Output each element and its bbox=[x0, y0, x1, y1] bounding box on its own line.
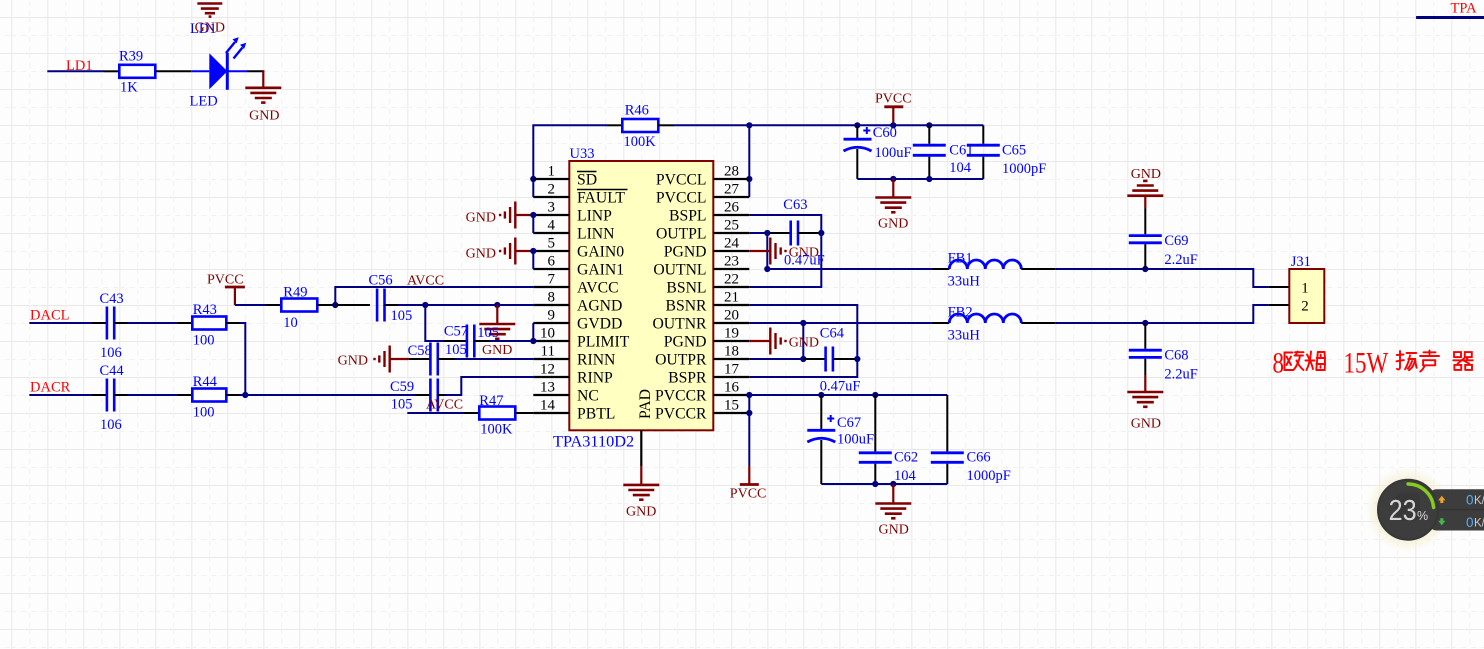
svg-text:8: 8 bbox=[548, 290, 556, 306]
pin 27 PVCCL (stub) bbox=[713, 196, 749, 198]
pin 4 LINN (stub) bbox=[533, 232, 569, 234]
ground (top, above LED) bbox=[197, 4, 222, 17]
pin name PVCCL bbox=[656, 172, 707, 189]
pin 21 BSNR (stub) bbox=[713, 304, 749, 306]
svg-text:PGND: PGND bbox=[664, 334, 707, 351]
title fragment TPA (top right) bbox=[1416, 1, 1484, 18]
svg-text:K/s: K/s bbox=[1474, 495, 1484, 507]
svg-text:100uF: 100uF bbox=[875, 145, 912, 161]
wire BSPL loop pin26 to pin22 bbox=[749, 215, 821, 287]
svg-text:RINN: RINN bbox=[577, 352, 615, 369]
wire R43 to sum node bbox=[226, 323, 245, 395]
pin 15 PVCCR (stub) bbox=[713, 412, 749, 414]
connector J31 bbox=[1289, 254, 1324, 323]
node pin1 junction bbox=[530, 176, 536, 182]
power port PVCC (left) bbox=[207, 273, 245, 306]
pin name OUTPR bbox=[655, 352, 707, 369]
wire C58 to pin11 RINN bbox=[455, 358, 533, 360]
svg-text:106: 106 bbox=[100, 417, 122, 433]
svg-text:0: 0 bbox=[1466, 515, 1474, 530]
pin 12 RINP (stub) bbox=[533, 376, 569, 378]
wire bottom cap rail bbox=[821, 483, 947, 485]
svg-text:GND: GND bbox=[1131, 417, 1161, 432]
svg-text:8: 8 bbox=[1273, 346, 1284, 379]
pin number 13 bbox=[540, 380, 555, 396]
node GND branch junction bbox=[494, 302, 500, 308]
svg-text:105: 105 bbox=[391, 308, 413, 324]
wire pin18 OUTPR to C64 bbox=[749, 358, 825, 360]
power port PVCC (top) bbox=[875, 92, 912, 126]
wire cap bottom rail bbox=[857, 178, 983, 180]
svg-text:GND: GND bbox=[1131, 167, 1161, 182]
svg-text:9: 9 bbox=[548, 308, 556, 324]
pin 10 PLIMIT (stub) bbox=[533, 340, 569, 342]
pin 18 OUTPR (stub) bbox=[713, 358, 749, 360]
node C61 top junction bbox=[926, 122, 932, 128]
svg-text:BSPL: BSPL bbox=[669, 208, 707, 225]
pin name GAIN1 bbox=[577, 262, 624, 279]
svg-text:1K: 1K bbox=[120, 80, 138, 96]
LED LD1 bbox=[190, 37, 247, 109]
svg-text:OUTPR: OUTPR bbox=[655, 352, 707, 369]
svg-text:C44: C44 bbox=[100, 363, 125, 379]
ground (bar style, pin24 PGND) bbox=[749, 238, 819, 265]
wire AVCC node to pin7 bbox=[335, 287, 533, 305]
node pin5 junction bbox=[530, 248, 536, 254]
svg-text:BSPR: BSPR bbox=[668, 370, 707, 387]
wire FB2 to J31 pin2 bbox=[1021, 305, 1289, 323]
net label AVCC (top) bbox=[407, 274, 444, 289]
wire GND rail to C57 bbox=[425, 305, 467, 341]
svg-text:GND: GND bbox=[789, 336, 819, 351]
node rail/pin28 riser junction bbox=[746, 122, 752, 128]
ground (bar style, pins 3-4) bbox=[466, 202, 534, 229]
wire C44 to R44 bbox=[114, 394, 192, 396]
capacitor C58 105 bbox=[408, 342, 467, 376]
svg-text:FB1: FB1 bbox=[948, 251, 973, 267]
ground (right of LED) bbox=[245, 88, 281, 124]
pin 26 BSPL (stub) bbox=[713, 214, 749, 216]
pin number 25 bbox=[724, 218, 739, 234]
node pin20 junction bbox=[800, 320, 806, 326]
pin number 16 bbox=[724, 380, 740, 396]
wire BSNR loop pin21 to pin17 bbox=[749, 305, 857, 377]
pin 11 RINN (stub) bbox=[533, 358, 569, 360]
svg-text:OUTNL: OUTNL bbox=[653, 262, 706, 279]
svg-text:28: 28 bbox=[724, 164, 739, 180]
ground (AGND rail) bbox=[479, 305, 515, 358]
wire C56 to pin8 AGND bbox=[398, 304, 533, 306]
pin name OUTNR bbox=[652, 316, 707, 333]
ground (top PVCC cluster) bbox=[875, 179, 911, 232]
svg-text:100K: 100K bbox=[624, 134, 657, 150]
pin 28 PVCCL (stub) bbox=[713, 178, 749, 180]
svg-text:22: 22 bbox=[724, 272, 739, 288]
svg-text:14: 14 bbox=[540, 398, 556, 414]
pin number 8 bbox=[548, 290, 556, 306]
wire R39 to LED bbox=[155, 70, 209, 72]
capacitor C60 100uF polarized bbox=[844, 125, 912, 179]
svg-text:C68: C68 bbox=[1164, 347, 1188, 363]
power port PVCC (bottom) bbox=[730, 487, 767, 502]
pin number 17 bbox=[724, 362, 740, 378]
pin name BSNL bbox=[666, 280, 706, 297]
svg-text:11: 11 bbox=[541, 344, 555, 360]
pin name PVCCR bbox=[655, 388, 707, 405]
capacitor C64 0.47uF bbox=[820, 326, 861, 395]
inductor FB1 33uH bbox=[948, 251, 1022, 290]
svg-text:C43: C43 bbox=[100, 291, 124, 307]
pin name NC bbox=[577, 388, 599, 405]
pin number 12 bbox=[540, 362, 555, 378]
pin name RINP bbox=[577, 370, 613, 387]
svg-text:C58: C58 bbox=[408, 343, 432, 359]
pin number 19 bbox=[724, 326, 739, 342]
node pin3 junction bbox=[530, 212, 536, 218]
pin name PGND bbox=[664, 334, 707, 351]
svg-text:LD1: LD1 bbox=[190, 21, 217, 37]
pin 25 OUTPL (stub) bbox=[713, 232, 749, 234]
pin name PVCCL bbox=[656, 190, 707, 207]
node C62 bottom junction bbox=[872, 481, 878, 487]
svg-text:10: 10 bbox=[540, 326, 555, 342]
resistor R49 bbox=[281, 285, 317, 332]
capacitor C62 104 bbox=[859, 395, 918, 484]
ground (bar style, pin19 PGND) bbox=[749, 328, 819, 355]
svg-text:R43: R43 bbox=[193, 302, 217, 318]
pin number 11 bbox=[541, 344, 555, 360]
capacitor C65 1000pF bbox=[967, 125, 1047, 179]
op-amp/amplifier U33 body bbox=[553, 146, 713, 451]
resistor R43 bbox=[192, 302, 226, 349]
node AVCC junction bbox=[332, 302, 338, 308]
pin number 23 bbox=[724, 254, 739, 270]
svg-text:105: 105 bbox=[477, 325, 499, 341]
svg-text:PGND: PGND bbox=[664, 244, 707, 261]
pin number 7 bbox=[548, 272, 556, 288]
svg-text:GND: GND bbox=[878, 217, 908, 232]
pin number 21 bbox=[724, 290, 739, 306]
capacitor C44 106 bbox=[100, 363, 125, 433]
svg-text:2: 2 bbox=[1301, 299, 1309, 315]
pin name LINN bbox=[577, 226, 614, 243]
pin number 14 bbox=[540, 398, 556, 414]
value label 0.47uF (C63) bbox=[784, 253, 825, 269]
svg-text:PAD: PAD bbox=[637, 389, 654, 419]
pin 17 BSPR (stub) bbox=[713, 376, 749, 378]
svg-text:GND: GND bbox=[879, 523, 909, 538]
capacitor C57 105 bbox=[444, 324, 499, 358]
speaker note: 8欧姆 15W 扬声器 (red) bbox=[1273, 346, 1473, 379]
svg-text:100uF: 100uF bbox=[837, 432, 874, 448]
svg-text:PBTL: PBTL bbox=[577, 406, 615, 423]
svg-text:0.47uF: 0.47uF bbox=[820, 379, 861, 395]
node pin15 junction bbox=[746, 410, 752, 416]
svg-text:AVCC: AVCC bbox=[426, 398, 463, 413]
resistor R47 bbox=[479, 393, 515, 438]
svg-text:R47: R47 bbox=[479, 393, 503, 409]
svg-text:23: 23 bbox=[724, 254, 739, 270]
node pin23 junction bbox=[764, 266, 770, 272]
capacitor C43 106 bbox=[100, 291, 124, 361]
svg-text:2: 2 bbox=[548, 182, 556, 198]
node pin18 junction bbox=[800, 356, 806, 362]
pin name FAULT bbox=[577, 190, 628, 207]
pin number 15 bbox=[724, 398, 739, 414]
wire OUTPL to OUTNL vertical bbox=[766, 233, 768, 269]
pin number 20 bbox=[724, 308, 739, 324]
svg-text:GVDD: GVDD bbox=[577, 316, 622, 333]
pin 8 AGND (stub) bbox=[533, 304, 569, 306]
node C57 branch junction bbox=[422, 302, 428, 308]
pin number 2 bbox=[548, 182, 556, 198]
svg-text:DACL: DACL bbox=[30, 308, 69, 324]
pin name PGND bbox=[664, 244, 707, 261]
pin name BSNR bbox=[666, 298, 708, 315]
svg-text:0.47uF: 0.47uF bbox=[784, 253, 825, 269]
node pin28 junction bbox=[746, 176, 752, 182]
svg-text:7: 7 bbox=[548, 272, 556, 288]
svg-text:C69: C69 bbox=[1164, 233, 1188, 249]
pin number 27 bbox=[724, 182, 740, 198]
svg-text:SD: SD bbox=[577, 172, 597, 189]
svg-text:2.2uF: 2.2uF bbox=[1164, 367, 1197, 383]
svg-text:16: 16 bbox=[724, 380, 740, 396]
svg-text:5: 5 bbox=[548, 236, 556, 252]
svg-text:PVCC: PVCC bbox=[207, 273, 244, 288]
wire R46 to PVCC rail bbox=[658, 124, 983, 126]
svg-text:1: 1 bbox=[548, 164, 556, 180]
wire DACR to C44 bbox=[29, 394, 106, 396]
pin number 3 bbox=[548, 200, 556, 216]
pin name BSPL bbox=[669, 208, 707, 225]
svg-text:106: 106 bbox=[100, 345, 122, 361]
node C61 bottom junction bbox=[926, 176, 932, 182]
wire pin23 OUTNL to FB1 bbox=[767, 268, 949, 270]
svg-text:105: 105 bbox=[391, 397, 413, 413]
svg-text:K/s: K/s bbox=[1474, 518, 1484, 530]
svg-text:C63: C63 bbox=[783, 197, 807, 213]
svg-text:18: 18 bbox=[724, 344, 739, 360]
svg-text:C57: C57 bbox=[444, 324, 468, 340]
svg-text:GND: GND bbox=[338, 354, 368, 369]
svg-text:12: 12 bbox=[540, 362, 555, 378]
wire DACL to C43 bbox=[29, 322, 106, 324]
svg-text:OUTNR: OUTNR bbox=[652, 316, 707, 333]
capacitor C67 100uF polarized bbox=[807, 395, 874, 484]
wire R44 to sum node and C59 bbox=[226, 394, 430, 396]
pin 20 OUTNR (stub) bbox=[713, 322, 749, 324]
node GND tap junction bbox=[890, 176, 896, 182]
svg-text:1: 1 bbox=[1301, 281, 1309, 297]
pin 5 GAIN0 (stub) bbox=[533, 250, 569, 252]
svg-text:C60: C60 bbox=[873, 125, 897, 141]
wire pin20 OUTNR to FB2 bbox=[749, 322, 931, 324]
ground (PAD) bbox=[623, 466, 659, 520]
svg-text:PLIMIT: PLIMIT bbox=[577, 334, 630, 351]
svg-text:AGND: AGND bbox=[577, 298, 622, 315]
resistor R44 bbox=[192, 374, 226, 421]
svg-text:LINP: LINP bbox=[577, 208, 612, 225]
capacitor C69 2.2uF bbox=[1129, 209, 1198, 270]
net label AVCC (bottom) bbox=[426, 398, 463, 413]
svg-text:PVCCR: PVCCR bbox=[655, 388, 707, 405]
pin name PVCCR bbox=[655, 406, 707, 423]
ground (below C68) bbox=[1127, 375, 1163, 432]
capacitor C68 2.2uF bbox=[1129, 323, 1198, 383]
svg-text:27: 27 bbox=[724, 182, 740, 198]
pin number 26 bbox=[724, 200, 740, 216]
net label DACL bbox=[30, 308, 69, 324]
svg-text:PVCCR: PVCCR bbox=[655, 406, 707, 423]
svg-text:AVCC: AVCC bbox=[577, 280, 619, 297]
wire OUTNR to OUTPR vertical bbox=[802, 323, 804, 359]
pin name LINP bbox=[577, 208, 612, 225]
capacitor C66 1000pF bbox=[931, 395, 1011, 484]
node pin25 junction bbox=[764, 230, 770, 236]
svg-text:33uH: 33uH bbox=[948, 274, 981, 290]
svg-text:105: 105 bbox=[445, 342, 467, 358]
svg-text:OUTPL: OUTPL bbox=[656, 226, 707, 243]
pin name PBTL bbox=[577, 406, 615, 423]
pin number 18 bbox=[724, 344, 739, 360]
net label LD1 bbox=[66, 58, 93, 74]
pin name GVDD bbox=[577, 316, 622, 333]
wire C43 to R43 bbox=[114, 322, 192, 324]
pin 7 AVCC (stub) bbox=[533, 286, 569, 288]
pin 24 PGND (stub) bbox=[713, 250, 749, 252]
wire pin3 to pin4 bbox=[532, 215, 534, 233]
svg-text:LINN: LINN bbox=[577, 226, 614, 243]
svg-text:R49: R49 bbox=[283, 285, 307, 301]
pin number 5 bbox=[548, 236, 556, 252]
pin number 10 bbox=[540, 326, 555, 342]
pin name AVCC bbox=[577, 280, 619, 297]
svg-text:%: % bbox=[1417, 509, 1428, 523]
node C63 right junction bbox=[818, 230, 824, 236]
svg-text:PVCC: PVCC bbox=[875, 92, 912, 107]
svg-text:GND: GND bbox=[466, 211, 496, 226]
node pin16 junction bbox=[746, 392, 752, 398]
svg-text:FAULT: FAULT bbox=[577, 190, 625, 207]
resistor R39 bbox=[119, 49, 155, 96]
svg-text:FB2: FB2 bbox=[948, 305, 973, 321]
pin 9 GVDD (stub) bbox=[533, 322, 569, 324]
node GND tap (bottom) junction bbox=[890, 481, 896, 487]
svg-text:J31: J31 bbox=[1291, 254, 1311, 270]
node C69 junction bbox=[1142, 266, 1148, 272]
svg-text:C56: C56 bbox=[369, 273, 393, 289]
wire C57 to GVDD/PLIMIT bbox=[474, 323, 533, 341]
pin name BSPR bbox=[668, 370, 707, 387]
svg-text:24: 24 bbox=[724, 236, 740, 252]
net label DACR bbox=[30, 380, 71, 396]
svg-text:1000pF: 1000pF bbox=[1002, 161, 1046, 177]
pin number 4 bbox=[548, 218, 556, 234]
ground (above C69, inverted) bbox=[1127, 167, 1163, 209]
svg-text:PVCCL: PVCCL bbox=[656, 172, 707, 189]
pin number 22 bbox=[724, 272, 739, 288]
wire FB2 feed (black stub) bbox=[931, 322, 949, 324]
capacitor C56 105 bbox=[335, 273, 412, 325]
svg-text:GND: GND bbox=[626, 505, 656, 520]
svg-text:4: 4 bbox=[548, 218, 556, 234]
pin name RINN bbox=[577, 352, 615, 369]
wire PVCC to R49 bbox=[235, 304, 281, 306]
pin 1 SD (stub) bbox=[533, 178, 569, 180]
ground (bar style, pins 5-6) bbox=[466, 238, 534, 265]
svg-text:AVCC: AVCC bbox=[407, 274, 444, 289]
pin 3 LINP (stub) bbox=[533, 214, 569, 216]
svg-text:17: 17 bbox=[724, 362, 740, 378]
wire LED cathode to ground bbox=[227, 70, 264, 88]
pin 16 PVCCR (stub) bbox=[713, 394, 749, 396]
pin number 24 bbox=[724, 236, 740, 252]
svg-text:TPA: TPA bbox=[1451, 1, 1478, 17]
svg-text:104: 104 bbox=[949, 160, 972, 176]
wire SD/FAULT to R46 bbox=[533, 125, 622, 197]
svg-text:PVCCL: PVCCL bbox=[656, 190, 707, 207]
pin 22 BSNL (stub) bbox=[713, 286, 749, 288]
node C62 top junction bbox=[872, 392, 878, 398]
svg-text:GND: GND bbox=[482, 343, 512, 358]
svg-text:C64: C64 bbox=[820, 326, 845, 342]
capacitor C61 104 bbox=[913, 125, 974, 179]
pin PAD (thermal pad) bbox=[637, 389, 654, 466]
svg-text:C65: C65 bbox=[1002, 143, 1026, 159]
svg-text:U33: U33 bbox=[570, 146, 595, 162]
svg-text:TPA3110D2: TPA3110D2 bbox=[553, 432, 634, 451]
resistor R46 bbox=[622, 103, 658, 151]
ground (bottom cluster) bbox=[875, 484, 911, 538]
svg-text:23: 23 bbox=[1389, 495, 1417, 527]
node C60 top junction bbox=[854, 122, 860, 128]
svg-text:15: 15 bbox=[724, 398, 739, 414]
pin 14 PBTL (stub) bbox=[533, 412, 569, 414]
svg-text:100: 100 bbox=[193, 333, 215, 349]
pin number 9 bbox=[548, 308, 556, 324]
svg-text:RINP: RINP bbox=[577, 370, 613, 387]
pin 19 PGND (stub) bbox=[713, 340, 749, 342]
svg-text:GND: GND bbox=[466, 247, 496, 262]
wire FB1 to J31 pin1 bbox=[1021, 269, 1289, 287]
svg-text:104: 104 bbox=[894, 468, 917, 484]
svg-text:1000pF: 1000pF bbox=[967, 468, 1011, 484]
pin number 6 bbox=[548, 254, 556, 270]
svg-text:GAIN1: GAIN1 bbox=[577, 262, 624, 279]
node R43/R44 sum junction bbox=[242, 392, 248, 398]
svg-text:R46: R46 bbox=[625, 103, 649, 119]
wire R49 to AVCC node bbox=[317, 304, 335, 306]
svg-text:15W: 15W bbox=[1344, 346, 1389, 379]
node pin10 junction bbox=[530, 338, 536, 344]
svg-text:C59: C59 bbox=[390, 379, 414, 395]
pin 23 OUTNL (stub) bbox=[713, 268, 749, 270]
svg-text:0: 0 bbox=[1466, 493, 1474, 508]
svg-text:20: 20 bbox=[724, 308, 739, 324]
svg-text:100K: 100K bbox=[480, 422, 513, 438]
svg-text:25: 25 bbox=[724, 218, 739, 234]
inductor FB2 33uH bbox=[948, 305, 1022, 344]
svg-text:R44: R44 bbox=[193, 374, 218, 390]
svg-text:100: 100 bbox=[193, 405, 215, 421]
pin number 1 bbox=[548, 164, 556, 180]
wire pin16 rail to C66 bbox=[749, 394, 947, 396]
wire R47 to pin14 PBTL bbox=[515, 412, 533, 414]
pin name SD bbox=[577, 172, 597, 189]
svg-text:NC: NC bbox=[577, 388, 599, 405]
pin 13 NC (stub) bbox=[533, 394, 569, 396]
